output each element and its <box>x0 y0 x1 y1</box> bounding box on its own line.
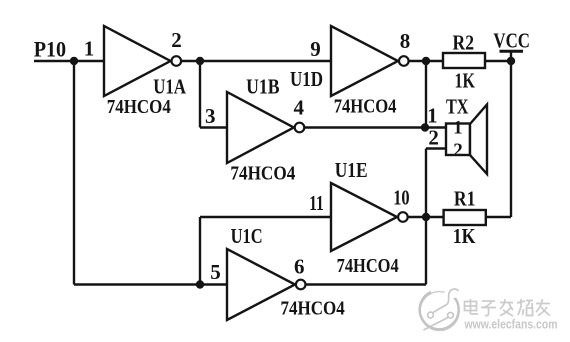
node junction bottom <box>196 280 204 288</box>
resistor R2 <box>443 53 485 68</box>
wire R1 left to node B <box>426 216 444 218</box>
svg-text:2: 2 <box>171 28 182 52</box>
op-amp U1E inverter triangle <box>331 183 397 251</box>
wire node A vertical to TX pin1 <box>425 61 427 128</box>
svg-text:74HCO4: 74HCO4 <box>107 96 171 118</box>
wire U1B output to TX pin 1 <box>305 126 446 128</box>
wire bottom run to U1C input pin 5 <box>74 283 227 285</box>
bubble U1B output <box>295 123 305 133</box>
svg-text:10: 10 <box>393 185 409 209</box>
svg-text:TX: TX <box>446 95 469 119</box>
svg-text:www.elecfans.com: www.elecfans.com <box>464 318 558 332</box>
node junction P10 <box>70 57 78 65</box>
wire TX pin 2 <box>426 147 446 149</box>
op-amp U1C inverter triangle <box>227 249 295 320</box>
svg-text:P10: P10 <box>34 38 67 62</box>
svg-text:5: 5 <box>210 260 221 284</box>
wire U1A output to U1D input pin 9 <box>182 60 332 62</box>
wire U1E output pin 10 <box>409 216 427 218</box>
wire U1B input pin 3 <box>200 126 227 128</box>
speaker TX horn <box>470 105 487 175</box>
wire vertical node to U1E input <box>199 217 201 285</box>
watermark logo disc <box>420 284 460 331</box>
svg-text:8: 8 <box>400 29 411 53</box>
svg-text:R2: R2 <box>453 31 475 55</box>
wire TX pin2 vertical down to node B <box>425 149 427 218</box>
svg-text:1: 1 <box>427 103 438 127</box>
node junction VCC <box>507 57 515 65</box>
wire U1C output pin 6 run <box>306 283 426 285</box>
svg-text:1: 1 <box>453 118 463 139</box>
svg-text:4: 4 <box>294 95 305 119</box>
op-amp U1B inverter triangle <box>227 92 294 163</box>
svg-text:11: 11 <box>309 191 324 215</box>
bubble U1A output <box>172 56 182 66</box>
wire node B down to U1C output level <box>425 217 427 285</box>
speaker TX body <box>446 124 470 156</box>
wire U1D output to R2 <box>410 60 444 62</box>
svg-text:U1B: U1B <box>246 74 279 98</box>
wire VCC rail down right side <box>510 61 512 217</box>
svg-text:74HCO4: 74HCO4 <box>334 96 397 118</box>
watermark chinese text (drawn glyph shapes) <box>465 299 551 316</box>
svg-text:VCC: VCC <box>493 29 530 53</box>
bubble U1E output <box>398 212 408 222</box>
svg-text:3: 3 <box>205 104 216 128</box>
bubble U1C output <box>296 280 306 290</box>
node junction U1D out <box>422 57 430 65</box>
svg-text:74HCO4: 74HCO4 <box>281 297 345 319</box>
svg-text:6: 6 <box>294 255 305 279</box>
svg-text:9: 9 <box>310 37 321 61</box>
node junction R1 left <box>422 213 430 221</box>
resistor R1 <box>444 210 486 225</box>
op-amp U1A inverter triangle <box>104 26 171 96</box>
svg-text:R1: R1 <box>454 187 476 211</box>
op-amp U1D inverter triangle <box>331 26 398 96</box>
wire R1 right to rail <box>486 216 511 218</box>
svg-text:U1E: U1E <box>335 158 368 182</box>
wire P10 vertical down <box>73 61 75 285</box>
wire drop to U1B input <box>199 61 201 128</box>
svg-text:1K: 1K <box>455 68 476 92</box>
svg-text:74HCO4: 74HCO4 <box>230 163 295 185</box>
svg-text:1K: 1K <box>453 224 476 248</box>
wire VCC stub <box>510 51 512 61</box>
wire U1E input pin 11 <box>200 216 331 218</box>
wire R2 right to VCC <box>485 60 511 62</box>
svg-text:U1C: U1C <box>231 224 263 248</box>
svg-text:2: 2 <box>428 126 439 150</box>
svg-text:U1D: U1D <box>290 67 323 91</box>
power VCC bar <box>500 50 524 53</box>
bubble U1D output <box>399 56 409 66</box>
svg-text:74HCO4: 74HCO4 <box>337 255 399 277</box>
node junction TX pin1 <box>421 123 429 131</box>
svg-text:1: 1 <box>84 37 95 61</box>
svg-text:2: 2 <box>453 140 463 161</box>
wire P10 input <box>34 60 104 62</box>
node junction U1A out <box>196 57 204 65</box>
